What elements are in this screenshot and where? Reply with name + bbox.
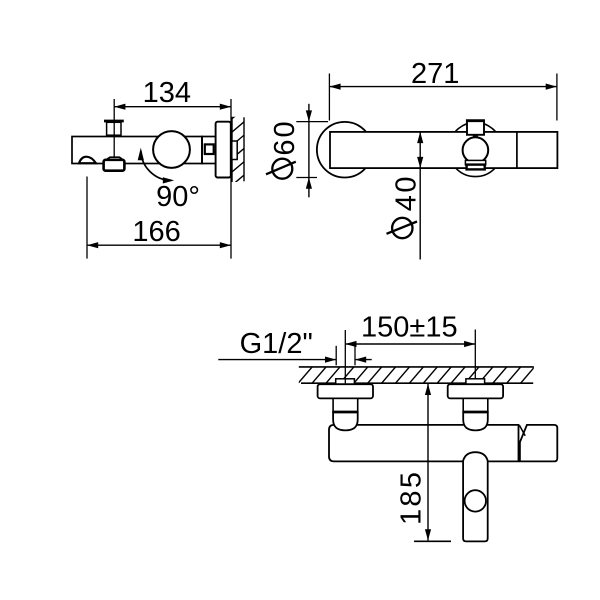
right union nut [463, 412, 488, 431]
dim 166 arrow left [87, 242, 98, 248]
svg-text:60: 60 [269, 119, 301, 155]
bottom collar [465, 160, 485, 164]
arc arrowhead up [138, 148, 144, 161]
dim 150 arrow left [345, 341, 356, 347]
right inlet centerline [474, 330, 476, 380]
svg-text:150±15: 150±15 [361, 312, 458, 344]
dim G1/2 leader left [218, 359, 336, 361]
dim G1/2 arrow right [325, 357, 336, 363]
extension line right (134/166, wall face) [230, 99, 232, 259]
90 deg rotation arc [141, 151, 172, 180]
right escutcheon flange [448, 384, 503, 398]
dim 166 line [87, 244, 231, 246]
dim 134 arrow left [114, 104, 125, 110]
dim d60 bottom extension [296, 177, 317, 179]
handle joint line [516, 132, 518, 168]
svg-text:185: 185 [395, 470, 427, 525]
label d60 diameter symbol [272, 159, 292, 179]
dim G1/2 arrow left [355, 357, 366, 363]
top-view body bar [330, 132, 557, 168]
svg-text:G1/2": G1/2" [240, 328, 313, 360]
dim 166 left extension [86, 177, 88, 259]
dim 185 line [427, 384, 429, 541]
dim d40 line [419, 132, 421, 260]
dim 271 left extension [328, 74, 330, 121]
dim 166 arrow right [220, 242, 231, 248]
dim 271 arrow right [546, 84, 557, 90]
dim d60 arrow down [306, 110, 312, 121]
left union nut [333, 412, 358, 431]
cartridge stem nub [473, 135, 478, 138]
spout outlet dome [79, 157, 96, 164]
dim 134 line [114, 106, 231, 108]
connector joint line [201, 137, 203, 164]
diverter knob centerline / 134 left extension [113, 99, 115, 157]
diverter knob cap (front) [466, 119, 485, 122]
dim 271 right extension [556, 74, 558, 121]
left union neck [333, 398, 358, 412]
aerator [104, 160, 125, 171]
wall hatching (bottom view) [297, 366, 536, 385]
dim G1/2 leader right [355, 359, 372, 361]
right pipe stub [466, 379, 485, 385]
tub spout [463, 452, 488, 541]
label d40 diameter symbol [392, 218, 412, 238]
dim 271 arrow left [329, 84, 340, 90]
svg-text:40: 40 [390, 174, 422, 211]
valve outer circle [448, 123, 502, 177]
aerator collar [106, 157, 123, 160]
dim 271 line [329, 86, 557, 88]
dim d60 top extension [296, 121, 328, 123]
dim 150+-15 line [345, 343, 475, 345]
body-to-plate connector [202, 137, 216, 164]
dim 185 bottom tick [414, 540, 451, 542]
label 185 [395, 470, 427, 525]
dim 185 arrow up [425, 384, 431, 395]
wall hatching (side view) [230, 107, 246, 187]
handle circle (side view) [153, 131, 190, 168]
wall back line [243, 117, 245, 181]
svg-text:166: 166 [132, 216, 180, 248]
connector detail square [205, 144, 214, 154]
left escutcheon flange [318, 384, 373, 398]
cartridge circle [463, 137, 489, 163]
svg-text:134: 134 [143, 77, 191, 109]
svg-text:271: 271 [411, 58, 459, 90]
dim 150 arrow right [464, 341, 475, 347]
pipe through wall [232, 141, 237, 160]
arc arrowhead right [163, 177, 174, 183]
wall top line [299, 366, 534, 368]
label d40 text [390, 174, 422, 211]
dim G1/2 left extension [335, 346, 337, 366]
label d60 text [269, 119, 301, 155]
dim d40 arrow up [417, 132, 423, 143]
handle lever [520, 425, 557, 462]
left nut shoulder [332, 411, 358, 414]
svg-text:90°: 90° [156, 181, 200, 213]
diverter knob body [107, 122, 121, 135]
dim d40 arrow down [417, 157, 423, 168]
dim G1/2 right extension [354, 346, 356, 366]
right nut shoulder [463, 411, 489, 414]
handle cone seam [519, 425, 525, 436]
dim 185 arrow down [425, 529, 431, 540]
left pipe stub [336, 379, 355, 385]
left inlet centerline [344, 330, 346, 383]
wall plate [216, 122, 231, 178]
dim d60 line [308, 104, 310, 198]
dim d60 arrow up [306, 178, 312, 189]
bottom cap [467, 165, 485, 170]
diverter knob cap [104, 120, 124, 123]
mixer body bar [329, 425, 519, 462]
wall bottom line [301, 382, 533, 384]
spout outlet hole [465, 490, 486, 511]
right union neck [463, 398, 488, 412]
diverter knob (front) [467, 121, 484, 135]
side-view body [72, 137, 202, 164]
dim 134 arrow right [220, 104, 231, 110]
escutcheon circle [317, 122, 373, 178]
wall surface line [231, 117, 233, 182]
